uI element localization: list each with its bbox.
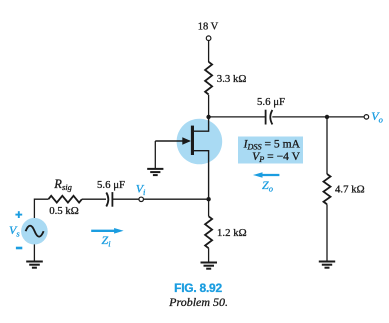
JFET Q1 source lead [193,151,209,200]
svg-text:0.5 kΩ: 0.5 kΩ [49,205,79,217]
wire RL to ground [326,204,328,261]
resistor Rsig 0.5 kOhm [48,196,81,203]
JFET Q1 drain lead [193,117,209,131]
junction source node [206,197,210,201]
wire Vs bottom to ground [33,244,35,261]
capacitor C2 5.6 uF [266,110,273,125]
resistor RS 1.2 kOhm [205,216,212,248]
node Vo terminal [364,115,369,120]
junction output node [325,115,329,119]
svg-text:FIG. 8.92: FIG. 8.92 [174,281,222,295]
svg-text:4.7 kΩ: 4.7 kΩ [335,183,365,195]
svg-text:5.6 μF: 5.6 μF [97,179,125,191]
label plus [15,211,22,218]
resistor RD 3.3 kOhm [205,62,212,95]
svg-text:18 V: 18 V [198,22,219,33]
wire C1 to Vi [113,198,139,200]
source Vs sine wave [26,226,44,237]
wire C2 to output node [272,116,364,118]
arrow Zo [253,172,279,178]
wire source node to RS [208,199,210,216]
junction drain node [206,115,210,119]
node Vi terminal [139,197,144,202]
ground RS [201,263,218,269]
wire VDD to RD [208,41,210,63]
label minus [16,247,22,250]
JFET Q1 highlight circle [177,119,223,165]
svg-text:5.6 μF: 5.6 μF [257,96,285,108]
svg-text:3.3 kΩ: 3.3 kΩ [217,73,247,85]
highlight box IDSS VP [238,137,303,164]
svg-text:Problem 50.: Problem 50. [168,295,228,309]
node VDD terminal [206,36,211,41]
wire RS to ground [208,248,210,262]
resistor RL 4.7 kOhm [324,174,331,204]
ground gate [147,169,163,175]
ground RL [319,262,335,268]
wire Vi to source node [144,198,209,200]
wire gate to ground [154,141,156,168]
ground Vs [26,262,43,268]
wire Rsig to C1 [82,198,106,200]
svg-text:1.2 kΩ: 1.2 kΩ [217,227,247,239]
arrow Zi [91,228,123,234]
wire RD to drain node [208,95,210,117]
capacitor C1 5.6 uF [106,192,112,207]
source Vs highlight circle [21,218,48,245]
wire output node to RL [326,117,328,174]
wire Vs top to Rsig [34,199,48,218]
wire drain node to C2 [209,116,265,118]
JFET Q1 gate lead with arrow [155,140,189,142]
JFET Q1 channel bar [191,126,194,155]
